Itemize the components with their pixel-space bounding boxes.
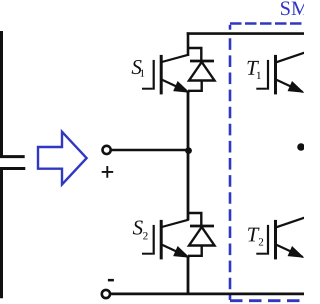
SM boundary dashed box top edge bbox=[230, 22, 304, 25]
wire S branch bottom bbox=[187, 256, 190, 296]
transistor T2 bbox=[256, 218, 305, 260]
label S2 bbox=[133, 221, 143, 235]
SM boundary dashed box bottom edge bbox=[230, 299, 304, 302]
minus label bbox=[108, 279, 114, 282]
diode D2 bbox=[188, 213, 215, 256]
plus label bbox=[102, 166, 114, 178]
node - terminal circle bbox=[102, 290, 110, 298]
capacitor C bottom plate bbox=[0, 167, 25, 170]
label T1 bbox=[248, 61, 260, 75]
node T branch junction bbox=[297, 143, 305, 151]
block arrow bbox=[38, 132, 87, 185]
transistor T1 bbox=[256, 53, 305, 95]
wire bottom rail bbox=[110, 292, 304, 295]
capacitor C top plate bbox=[0, 155, 25, 158]
node midpoint junction bbox=[185, 147, 192, 154]
node + terminal circle bbox=[103, 146, 111, 154]
wire + terminal to midpoint bbox=[111, 149, 189, 152]
DC bus wire lower (cut at left edge) bbox=[0, 169, 3, 298]
SM label bbox=[281, 1, 290, 15]
SM boundary dashed box left edge bbox=[229, 38, 232, 300]
transistor S2 bbox=[142, 220, 189, 260]
wire top rail bbox=[187, 32, 304, 35]
wire collector stub S1 bbox=[187, 32, 190, 56]
label S1 bbox=[132, 60, 142, 74]
transistor S1 bbox=[142, 55, 189, 95]
diode D1 bbox=[188, 48, 215, 91]
label T2 bbox=[248, 228, 260, 242]
SM boundary dashed box corner stub bbox=[229, 25, 232, 30]
DC bus wire upper (cut at left edge) bbox=[0, 31, 3, 156]
wire S branch middle bbox=[187, 91, 190, 221]
